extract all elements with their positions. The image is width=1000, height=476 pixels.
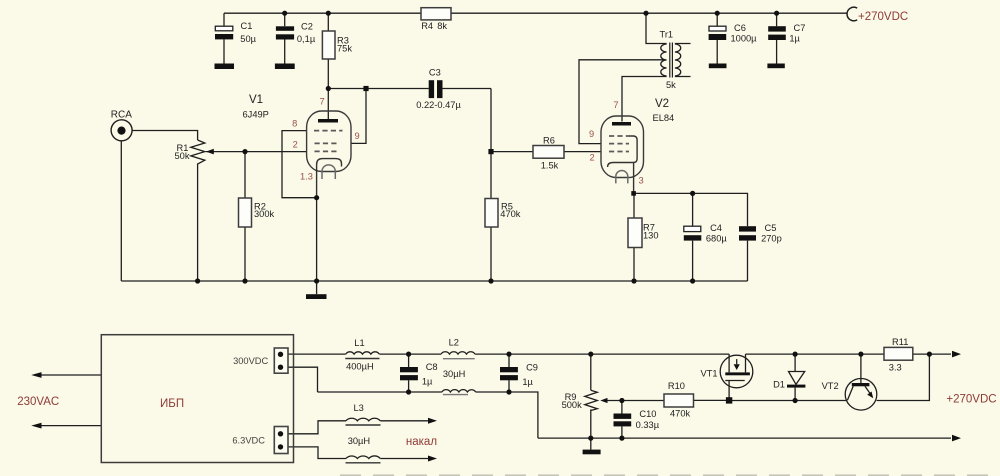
wire R2 leads (244, 152, 246, 281)
cathode V2 (608, 163, 634, 194)
arrow heater A (428, 418, 437, 424)
wire ground stub R9 (590, 438, 592, 450)
svg-text:C5: C5 (765, 223, 777, 233)
wire C9 leads (508, 354, 510, 392)
wire gate D1 VT2 line (729, 400, 847, 402)
inductor L1 (345, 338, 379, 372)
node V1 pin9 square (363, 86, 368, 91)
wire C6 leads (716, 13, 718, 63)
node C9 bottom (506, 389, 511, 394)
svg-text:300k: 300k (254, 209, 275, 219)
wire bottom rail (121, 280, 747, 282)
resistor R5 (485, 199, 521, 228)
svg-text:накал: накал (406, 436, 437, 448)
primary winding Tr1 (661, 44, 667, 76)
svg-text:1.3: 1.3 (300, 172, 313, 182)
wire V1 pin8 to cathode node (282, 131, 317, 198)
capacitor C8 (400, 362, 438, 387)
resistor R10 (664, 381, 694, 419)
node C7 top (774, 11, 779, 16)
mosfet VT1 (701, 354, 753, 400)
inductor L2 bottom winding (442, 390, 476, 395)
svg-text:50k: 50k (175, 151, 190, 161)
svg-text:D1: D1 (773, 380, 785, 390)
cathode V1 (317, 159, 342, 198)
capacitor C3 (416, 68, 461, 111)
svg-text:8k: 8k (437, 21, 447, 31)
secondary winding Tr1 (675, 44, 681, 76)
zener D1 (773, 372, 805, 390)
inductor L3 winding A (346, 403, 381, 446)
resistor R7 (628, 218, 659, 248)
connector 6.3VDC (232, 427, 288, 454)
wire VT2 emitter out (877, 354, 930, 400)
resistor R3 (322, 31, 352, 59)
wire R6 left (491, 151, 533, 153)
wire Tr1 secondary leads (675, 44, 691, 77)
svg-text:30µH: 30µH (348, 436, 370, 446)
wire C10 leads (621, 401, 623, 439)
node VT2 base (858, 352, 863, 357)
wire heater line B (281, 447, 429, 459)
svg-text:L3: L3 (354, 403, 364, 413)
wire RCA ground down (120, 141, 122, 281)
svg-text:ИБП: ИБП (160, 398, 184, 410)
svg-text:C10: C10 (639, 409, 656, 419)
node C10 bottom (619, 436, 624, 441)
wire R3 leads (327, 13, 329, 88)
node rail R7 (631, 278, 636, 283)
svg-text:9: 9 (589, 129, 594, 139)
capacitor C2 (276, 22, 316, 44)
svg-text:C6: C6 (734, 23, 746, 33)
wire V1 plate lead (327, 89, 329, 120)
node C4 top (690, 191, 695, 196)
ground C7 (767, 64, 784, 69)
wire R5 leads (490, 152, 492, 281)
svg-text:R11: R11 (892, 337, 908, 347)
svg-text:470k: 470k (670, 409, 691, 419)
transformer Tr1 (660, 30, 681, 91)
svg-text:270p: 270p (761, 233, 782, 243)
potentiometer R1 (175, 140, 214, 165)
arrow output plus (952, 351, 961, 358)
svg-text:6J49P: 6J49P (243, 110, 269, 120)
svg-text:470k: 470k (500, 209, 521, 219)
wire C1 leads (223, 13, 225, 63)
wire R6 right to V2 pin2 (564, 151, 601, 153)
svg-text:V1: V1 (249, 94, 263, 106)
svg-text:5k: 5k (666, 80, 676, 90)
svg-text:1µ: 1µ (422, 377, 433, 387)
wire R9 leads (590, 354, 592, 438)
node R5 top square (488, 149, 493, 154)
RCA jack (111, 109, 132, 141)
resistor R2 (239, 198, 275, 227)
wire minus rail long (538, 437, 951, 439)
svg-text:230VAC: 230VAC (17, 396, 59, 408)
node C9 top (506, 352, 511, 357)
potentiometer R9 (562, 390, 608, 410)
wire Tr1 primary top (646, 13, 667, 43)
svg-text:C9: C9 (526, 363, 538, 373)
svg-text:680µ: 680µ (706, 233, 728, 243)
svg-text:9: 9 (355, 131, 360, 141)
svg-text:C2: C2 (301, 22, 313, 32)
node C8 top (406, 352, 411, 357)
svg-text:1000µ: 1000µ (731, 34, 758, 44)
wire plate node run (328, 89, 491, 152)
svg-text:C7: C7 (794, 23, 806, 33)
svg-text:C3: C3 (429, 68, 441, 78)
svg-text:VT1: VT1 (701, 369, 718, 379)
wire R10 to VT1 gate node (694, 399, 730, 401)
wire 230VAC lines (41, 375, 101, 426)
arrow 230VAC top (31, 372, 41, 378)
node C2 top (282, 11, 287, 16)
node R9 wiper (619, 398, 624, 403)
svg-text:75k: 75k (337, 44, 352, 54)
ground C2 (275, 64, 295, 70)
wire C8 leads (408, 354, 410, 392)
g3 tie V2 (629, 136, 637, 163)
capacitor C4 (684, 223, 728, 243)
wire top rail right (451, 12, 848, 14)
bottom edge artifact line (340, 474, 1000, 476)
svg-text:7: 7 (613, 100, 618, 110)
wire R11 right segment (913, 353, 951, 355)
capacitor C7 (768, 23, 805, 44)
node rail R1 (195, 278, 200, 283)
svg-text:+270VDC: +270VDC (946, 394, 996, 406)
wire RCA signal (132, 131, 197, 141)
grid dashes V1 (314, 131, 343, 152)
wire V1 pin9 branch (351, 89, 366, 144)
node R9 bottom (588, 436, 593, 441)
wire Tr1 tap to V2 pin9 (579, 60, 664, 144)
wire R7 leads (633, 193, 635, 281)
svg-text:L1: L1 (354, 338, 364, 348)
svg-text:C1: C1 (241, 21, 253, 31)
node rail ground (314, 278, 319, 283)
node R3 top (326, 11, 331, 16)
node VT1 gate square (726, 397, 732, 403)
wire ground stub main (316, 281, 318, 294)
resistor R11 (884, 337, 913, 373)
wire C2 leads (284, 13, 286, 63)
plate V2 (612, 122, 631, 126)
wire 300VDC plus line (281, 353, 729, 355)
box IBP (101, 335, 293, 463)
resistor R6 (533, 136, 564, 171)
wire R1 bottom (197, 165, 199, 281)
resistor R4 (421, 8, 451, 31)
svg-text:6.3VDC: 6.3VDC (232, 436, 265, 446)
ground R9 (583, 450, 601, 455)
ground main (306, 294, 327, 299)
svg-text:1.5k: 1.5k (541, 161, 559, 171)
tube V2 (589, 98, 674, 193)
svg-text:L2: L2 (449, 338, 459, 348)
envelope V1 (307, 111, 351, 172)
svg-text:+270VDC: +270VDC (858, 11, 908, 23)
capacitor C5 (739, 223, 782, 243)
svg-text:R10: R10 (668, 381, 685, 391)
transistor VT2 (822, 354, 877, 410)
svg-text:0.33µ: 0.33µ (636, 420, 660, 430)
svg-text:500k: 500k (562, 400, 583, 410)
svg-text:EL84: EL84 (653, 113, 675, 123)
svg-text:50µ: 50µ (240, 34, 256, 44)
node C6 top (715, 11, 720, 16)
node rail R5 (488, 278, 493, 283)
node V1 cathode (314, 195, 319, 200)
arrow output minus (952, 435, 961, 442)
wire D1 leads (794, 354, 796, 400)
svg-text:R4: R4 (421, 21, 433, 31)
svg-text:130: 130 (643, 231, 659, 241)
heater V1 (322, 165, 335, 179)
svg-text:1µ: 1µ (789, 34, 800, 44)
ground C1 (215, 64, 235, 70)
svg-text:C8: C8 (426, 362, 438, 372)
arrow heater B (428, 456, 437, 462)
capacitor C1 (215, 21, 257, 44)
svg-text:3.3: 3.3 (889, 363, 902, 373)
node V2 cathode (631, 191, 636, 196)
core Tr1 (670, 43, 673, 78)
wire C4 leads (692, 193, 694, 281)
svg-text:1µ: 1µ (522, 377, 533, 387)
node rail C4 (690, 278, 695, 283)
connector +270VDC top (847, 7, 908, 23)
capacitor C10 (614, 409, 660, 430)
wire V1 cathode down (316, 198, 318, 281)
node D1 top (793, 352, 798, 357)
envelope V2 (601, 116, 644, 178)
inductor L2 top winding (441, 338, 475, 380)
ground C6 (709, 64, 727, 69)
wire 300VDC return step (281, 367, 318, 392)
svg-text:30µH: 30µH (443, 369, 465, 379)
svg-text:8: 8 (292, 118, 297, 128)
heater V2 (616, 171, 628, 184)
svg-text:V2: V2 (655, 98, 669, 110)
node D1 bottom (793, 398, 798, 403)
svg-text:C4: C4 (710, 223, 722, 233)
node Tr1 top (643, 11, 648, 16)
wire Tr1 primary bottom to V2 plate (622, 77, 667, 122)
inductor L3 winding B (346, 456, 381, 463)
svg-text:2: 2 (293, 140, 298, 150)
grid dashes V2 (609, 136, 629, 152)
svg-text:Tr1: Tr1 (660, 30, 674, 40)
capacitor C6 (709, 23, 758, 44)
wire V2 cathode node run (634, 193, 748, 281)
svg-text:300VDC: 300VDC (233, 356, 268, 366)
wire R9 wiper to R10 (607, 400, 664, 402)
tube V1 (243, 94, 360, 198)
node R2 top (242, 149, 247, 154)
wire heater line A (281, 421, 429, 434)
node R9 top (588, 352, 593, 357)
capacitor C9 (500, 363, 538, 388)
node C8 bottom (406, 389, 411, 394)
wire lower return line (318, 392, 538, 438)
node rail R2 (242, 278, 247, 283)
svg-text:RCA: RCA (111, 109, 132, 120)
wire VT1 source to R11 (746, 353, 885, 355)
wire R1 wiper to V1 pin2 (206, 151, 307, 153)
plate V1 (318, 119, 338, 123)
svg-text:R6: R6 (543, 136, 555, 146)
node dots top section (195, 11, 779, 284)
svg-text:400µH: 400µH (346, 362, 374, 372)
svg-text:7: 7 (320, 96, 325, 106)
wire top rail left (224, 12, 421, 14)
svg-text:0.22-0.47µ: 0.22-0.47µ (416, 100, 461, 110)
node V1 plate (326, 86, 331, 91)
arrow 230VAC bottom (31, 423, 41, 429)
svg-text:VT2: VT2 (822, 381, 839, 391)
svg-text:0,1µ: 0,1µ (297, 34, 316, 44)
node R11 right (927, 352, 932, 357)
connector 300VDC (233, 348, 288, 373)
node dots bottom section (406, 352, 932, 441)
wire C7 leads (776, 13, 778, 63)
svg-text:2: 2 (590, 153, 595, 163)
svg-text:3: 3 (639, 176, 644, 186)
